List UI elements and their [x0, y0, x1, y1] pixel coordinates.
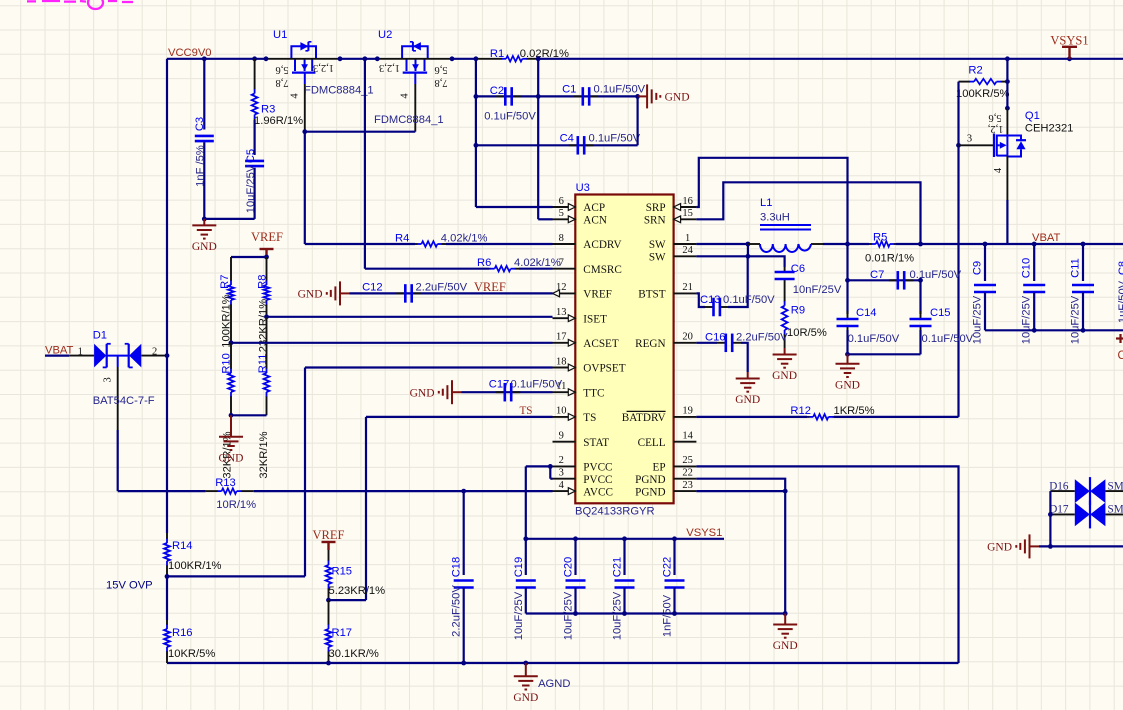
wire main rail right of R1 — [538, 58, 1123, 60]
svg-text:1: 1 — [685, 233, 690, 244]
wire OVPSET vertical — [304, 368, 306, 577]
svg-text:2.2uF/50V: 2.2uF/50V — [451, 585, 463, 637]
svg-text:15V OVP: 15V OVP — [106, 579, 153, 591]
svg-text:2.2uF/50V: 2.2uF/50V — [736, 331, 788, 343]
diode D16 (TVS) — [1050, 490, 1074, 492]
junction VSYS1 rail — [622, 536, 627, 541]
wire EP loop — [696, 466, 958, 663]
junction R1 left node A — [474, 56, 479, 61]
svg-text:10uF/25V: 10uF/25V — [513, 591, 525, 640]
wire Q1 source to VBAT rail — [1006, 200, 1008, 244]
ground GND AGND — [525, 663, 527, 676]
svg-text:3: 3 — [967, 134, 972, 145]
svg-text:PVCC: PVCC — [583, 474, 612, 486]
pin 6 ACP — [553, 206, 576, 208]
pin 21 BTST — [674, 292, 697, 294]
svg-text:VREF: VREF — [251, 230, 283, 244]
svg-text:1: 1 — [78, 346, 83, 357]
capacitor C22 — [673, 539, 675, 575]
svg-text:SW: SW — [649, 239, 666, 251]
svg-text:100KR/5%: 100KR/5% — [956, 88, 1010, 100]
junction C14 bottom — [845, 352, 850, 357]
pin 4 AVCC — [553, 490, 576, 492]
svg-text:GND: GND — [192, 241, 217, 253]
junction cap bottom — [672, 611, 677, 616]
svg-text:D1: D1 — [93, 330, 107, 342]
wire ACP from node A — [476, 206, 553, 208]
svg-text:R3: R3 — [261, 104, 275, 116]
svg-text:VREF: VREF — [474, 280, 506, 294]
svg-text:0.1uF/50V: 0.1uF/50V — [723, 294, 775, 306]
capacitor C7 — [889, 279, 898, 281]
svg-text:C6: C6 — [791, 263, 805, 275]
wire TS row — [366, 416, 553, 418]
wire R2 left vertical down to R12 — [957, 82, 959, 417]
svg-text:6: 6 — [559, 196, 564, 207]
svg-text:8: 8 — [559, 233, 564, 244]
svg-text:BATDRV: BATDRV — [622, 412, 666, 424]
pin 20 REGN — [674, 342, 697, 344]
ground GND right of C1 — [638, 95, 648, 97]
svg-text:R4: R4 — [395, 233, 409, 245]
svg-text:STAT: STAT — [583, 437, 609, 449]
wire TS vertical — [365, 417, 367, 600]
resistor R3 — [254, 59, 256, 90]
wire snubber branch — [748, 256, 785, 263]
resistor R14 (on trunk) — [166, 533, 168, 539]
svg-text:10uF/25V: 10uF/25V — [972, 295, 984, 344]
svg-text:C7: C7 — [870, 269, 884, 281]
svg-text:TTC: TTC — [583, 387, 604, 399]
svg-text:22: 22 — [682, 468, 693, 479]
svg-text:18: 18 — [556, 356, 567, 367]
svg-text:R13: R13 — [215, 477, 236, 489]
svg-text:10R/5%: 10R/5% — [787, 327, 827, 339]
svg-text:10R/1%: 10R/1% — [216, 499, 256, 511]
logo script (magenta, cut off at top) — [27, 0, 133, 9]
svg-text:C2: C2 — [490, 85, 504, 97]
svg-text:R8: R8 — [256, 275, 268, 289]
svg-text:1nF/50V: 1nF/50V — [662, 594, 674, 637]
junction gate tie to R4 — [302, 129, 307, 134]
svg-text:14: 14 — [682, 431, 693, 442]
pin 22 PGND — [674, 478, 697, 480]
svg-text:L1: L1 — [760, 197, 772, 209]
svg-text:C4: C4 — [560, 133, 574, 145]
junction U1 drain pin — [264, 56, 269, 61]
capacitor C13 BTST — [696, 293, 705, 307]
wire node A vertical — [475, 59, 477, 207]
svg-text:30.1KR/%: 30.1KR/% — [329, 648, 379, 660]
pin 19 BATDRV — [674, 416, 697, 418]
capacitor C10 — [1032, 242, 1037, 247]
svg-text:10uF/25V: 10uF/25V — [563, 591, 575, 640]
svg-text:C9: C9 — [972, 261, 984, 275]
ground GND below PGND — [784, 614, 786, 625]
pin 17 ACSET — [553, 342, 576, 344]
pin 7 CMSRC — [553, 268, 576, 270]
svg-text:R14: R14 — [172, 540, 193, 552]
svg-text:4: 4 — [290, 93, 301, 99]
svg-text:OVPSET: OVPSET — [583, 363, 625, 375]
svg-text:24: 24 — [682, 245, 693, 256]
svg-text:C1: C1 — [562, 84, 576, 96]
junction C18 top / AVCC row — [461, 489, 466, 494]
pin 12 VREF — [553, 292, 576, 294]
wire main rail through U1/U2 (pins black) — [266, 58, 340, 60]
capacitor C20 — [574, 539, 576, 575]
wire C4 up to GND node — [636, 96, 638, 145]
wire ACN from node B — [538, 218, 552, 220]
pin 14 CELL — [674, 441, 697, 443]
svg-text:3: 3 — [102, 377, 113, 382]
svg-text:13: 13 — [556, 307, 567, 318]
wire OVPSET row — [305, 366, 553, 368]
svg-text:BQ24133RGYR: BQ24133RGYR — [575, 506, 655, 518]
capacitor C1 — [574, 95, 583, 97]
junction Q1 branch — [1005, 56, 1010, 61]
svg-text:0.01R/1%: 0.01R/1% — [865, 253, 914, 265]
svg-text:1uF/50V: 1uF/50V — [1117, 280, 1123, 323]
wire PVCC down to VSYS1 rail — [525, 466, 527, 538]
resistor R13 — [118, 490, 206, 492]
wire Q1 gate — [959, 144, 994, 146]
wire VCC9V0 trunk vertical — [166, 59, 168, 533]
transistor U2 (FDMC8884_1, mirrored) — [402, 46, 428, 59]
svg-text:10: 10 — [556, 406, 567, 417]
junction U1 source pin — [338, 56, 343, 61]
svg-text:C19: C19 — [513, 557, 525, 578]
svg-text:R7: R7 — [219, 275, 231, 289]
svg-text:19: 19 — [682, 406, 693, 417]
resistor R1 — [477, 58, 502, 60]
svg-text:0.1uF/50V: 0.1uF/50V — [589, 133, 641, 145]
svg-text:GND: GND — [513, 692, 538, 704]
wire VREF row R7/R8 tops — [231, 256, 267, 258]
svg-text:4: 4 — [993, 167, 1004, 173]
svg-text:GND: GND — [835, 379, 860, 391]
svg-text:ACSET: ACSET — [583, 338, 619, 350]
svg-text:3: 3 — [559, 468, 564, 479]
svg-text:25: 25 — [682, 455, 693, 466]
power port VSYS1 — [1068, 47, 1070, 59]
svg-text:0.1uF/50V: 0.1uF/50V — [910, 269, 962, 281]
svg-text:VBAT: VBAT — [1032, 232, 1061, 244]
svg-text:CEH2321: CEH2321 — [1025, 123, 1074, 135]
pin 24 SW — [674, 255, 697, 257]
capacitor C9 — [983, 242, 988, 247]
wire C2 row — [476, 95, 538, 97]
svg-text:0.1uF/50V: 0.1uF/50V — [484, 110, 536, 122]
wire VSYS1 rail — [526, 538, 724, 540]
resistor R17 — [328, 600, 330, 625]
svg-text:10uF/25V: 10uF/25V — [245, 164, 257, 213]
power symbol fragment at edge — [1116, 337, 1123, 339]
wire TS to R15/R17 junction — [329, 599, 366, 601]
svg-text:R15: R15 — [332, 566, 353, 578]
svg-text:2: 2 — [559, 455, 564, 466]
junction R17 bottom on rail — [326, 661, 331, 666]
svg-text:VREF: VREF — [313, 528, 345, 542]
svg-text:C: C — [1118, 350, 1123, 362]
svg-text:FDMC8884_1: FDMC8884_1 — [374, 114, 444, 126]
svg-text:C12: C12 — [362, 281, 383, 293]
pin 23 PGND — [674, 490, 697, 492]
wire C3/C5 bottoms join — [204, 218, 254, 220]
svg-text:1.96R/1%: 1.96R/1% — [254, 115, 303, 127]
svg-text:GND: GND — [735, 394, 760, 406]
svg-text:CMSRC: CMSRC — [583, 264, 622, 276]
svg-text:20: 20 — [682, 332, 693, 343]
svg-text:1,2,3: 1,2,3 — [313, 62, 334, 73]
diode D1 (BAT54C-7-F) — [45, 355, 69, 357]
svg-text:C21: C21 — [612, 557, 624, 578]
ground GND below C3 — [203, 219, 205, 226]
junction C2 left — [474, 94, 479, 99]
wire main top rail left segment — [167, 58, 266, 60]
svg-text:100KR/1%: 100KR/1% — [221, 294, 233, 348]
pin 18 OVPSET — [553, 367, 576, 369]
junction 15V OVP node — [165, 574, 170, 579]
junction C4 left — [474, 143, 479, 148]
svg-text:SW: SW — [649, 252, 666, 264]
junction R5 right / SRN — [918, 242, 923, 247]
resistor R5 — [869, 243, 872, 245]
resistor R4 — [305, 243, 415, 245]
svg-text:R6: R6 — [477, 257, 491, 269]
svg-text:7,8: 7,8 — [434, 77, 447, 88]
svg-text:R9: R9 — [791, 305, 805, 317]
svg-text:10uF/25V: 10uF/25V — [1070, 295, 1082, 344]
junction cap bottom — [573, 611, 578, 616]
junction R2 right — [1005, 79, 1010, 84]
junction R3 top — [252, 56, 257, 61]
svg-text:5: 5 — [559, 208, 564, 219]
wire ISET row — [267, 316, 553, 318]
svg-text:SM: SM — [1108, 480, 1123, 492]
pin 15 SRN — [674, 218, 697, 220]
resistor R6 — [365, 268, 489, 270]
junction Q1 drain pin top — [1005, 106, 1010, 111]
wire C7 row — [848, 279, 921, 281]
wire SW pin24 row — [696, 255, 748, 257]
resistor R8 — [266, 257, 268, 281]
ground GND below R9 — [784, 348, 786, 355]
resistor R12 — [696, 416, 807, 418]
svg-text:CELL: CELL — [638, 437, 666, 449]
junction C18 bottom on rail — [461, 661, 466, 666]
junction R10 bottom — [229, 413, 234, 418]
svg-text:C15: C15 — [930, 307, 951, 319]
svg-text:GND: GND — [665, 92, 690, 104]
svg-text:1nF /5%: 1nF /5% — [195, 145, 207, 187]
junction D1 pin2 to trunk — [165, 353, 170, 358]
svg-text:R17: R17 — [332, 627, 353, 639]
svg-text:5,6: 5,6 — [988, 112, 1001, 123]
wire U1-U2 gate tie — [305, 131, 416, 133]
junction PGND / cap bottoms — [783, 611, 788, 616]
svg-text:R2: R2 — [968, 65, 982, 77]
wire ACSET row — [231, 342, 553, 344]
svg-text:ACN: ACN — [583, 215, 607, 227]
junction VREF — [264, 255, 269, 260]
junction cap bottom — [622, 611, 627, 616]
pin 1 SW — [674, 243, 697, 245]
svg-text:R1: R1 — [490, 48, 504, 60]
svg-text:232KR/1%: 232KR/1% — [258, 299, 270, 353]
svg-text:GND: GND — [298, 289, 323, 301]
diode D17 (TVS) — [1050, 513, 1074, 515]
svg-text:R12: R12 — [790, 405, 811, 417]
junction R15 bottom — [326, 598, 331, 603]
svg-text:5,6: 5,6 — [275, 64, 288, 75]
pin 11 TTC — [553, 391, 576, 393]
capacitor C12 — [396, 292, 405, 294]
svg-text:BTST: BTST — [638, 289, 666, 301]
junction R7/R10 ACSET tap — [229, 340, 234, 345]
svg-text:PVCC: PVCC — [583, 462, 612, 474]
wire TVS ground row — [1039, 545, 1123, 547]
wire PGND pins tie — [696, 479, 785, 491]
svg-text:C11: C11 — [1070, 258, 1082, 278]
svg-text:100KR/1%: 100KR/1% — [168, 560, 222, 572]
wire C12 row — [350, 292, 553, 294]
svg-text:PGND: PGND — [635, 486, 665, 498]
junction SW tie — [746, 242, 751, 247]
svg-text:C10: C10 — [1021, 258, 1033, 279]
svg-text:23: 23 — [682, 480, 693, 491]
svg-text:ACP: ACP — [583, 202, 605, 214]
svg-text:0.1uF/50V: 0.1uF/50V — [594, 84, 646, 96]
wire C1 row — [538, 95, 637, 97]
svg-text:5,6: 5,6 — [434, 64, 447, 75]
wire TTC row — [462, 391, 553, 393]
ground GND left of TVS — [1030, 545, 1040, 547]
svg-text:0.1uF/50V: 0.1uF/50V — [511, 379, 563, 391]
capacitor C6 — [783, 263, 785, 267]
junction C3 top — [202, 56, 207, 61]
resistor R7 — [230, 257, 232, 281]
wire SRN route — [696, 182, 920, 244]
capacitor C19 — [525, 539, 527, 575]
wire Q1 drain from R2 node — [1006, 82, 1008, 109]
svg-text:4: 4 — [400, 93, 411, 99]
svg-text:C14: C14 — [856, 307, 877, 319]
svg-text:SRN: SRN — [644, 215, 666, 227]
resistor R9 — [784, 284, 786, 302]
ground GND left of C12 — [340, 292, 350, 294]
junction R5 left / SRP — [845, 242, 850, 247]
svg-text:GND: GND — [773, 640, 798, 652]
wire L1 to R5 — [823, 243, 869, 245]
wire C14 column top — [846, 244, 848, 314]
svg-text:FDMC8884_1: FDMC8884_1 — [304, 85, 374, 97]
svg-text:D16: D16 — [1049, 480, 1069, 492]
transistor U1 (FDMC8884_1) — [291, 46, 316, 59]
svg-text:VSYS1: VSYS1 — [686, 527, 722, 539]
svg-text:5.23KR/1%: 5.23KR/1% — [329, 585, 386, 597]
svg-text:2: 2 — [152, 346, 157, 357]
pin 25 EP — [674, 465, 697, 467]
svg-text:BAT54C-7-F: BAT54C-7-F — [93, 395, 155, 407]
svg-text:GND: GND — [410, 387, 435, 399]
resistor R11 — [266, 317, 268, 369]
svg-text:0.1uF/50V: 0.1uF/50V — [922, 333, 974, 345]
svg-text:GND: GND — [219, 452, 244, 464]
svg-text:TS: TS — [583, 412, 596, 424]
svg-text:9: 9 — [559, 431, 564, 442]
wire bottom AGND rail — [167, 662, 959, 664]
svg-text:R16: R16 — [172, 627, 193, 639]
svg-text:GND: GND — [772, 370, 797, 382]
junction VSYS1 rail — [672, 536, 677, 541]
svg-text:C5: C5 — [245, 149, 257, 163]
svg-text:0.1uF/50V: 0.1uF/50V — [848, 333, 900, 345]
pin 3 PVCC — [553, 478, 576, 480]
svg-text:4.02k/1%: 4.02k/1% — [514, 257, 561, 269]
svg-text:C13: C13 — [700, 294, 721, 306]
ground GND below divider — [230, 415, 232, 437]
junction C1 right / GND node — [635, 94, 640, 99]
svg-text:ISET: ISET — [583, 313, 607, 325]
svg-text:TS: TS — [519, 405, 532, 417]
svg-text:SM: SM — [1108, 504, 1123, 516]
capacitor C3 — [203, 59, 205, 130]
svg-text:3.3uH: 3.3uH — [760, 212, 790, 224]
pin 8 ACDRV — [553, 243, 576, 245]
svg-text:R5: R5 — [873, 232, 887, 244]
svg-text:REGN: REGN — [635, 338, 665, 350]
pin 10 TS — [553, 416, 576, 418]
svg-text:10KR/5%: 10KR/5% — [168, 648, 215, 660]
op-amp U3 body (BQ24133RGYR) — [575, 195, 673, 504]
svg-text:10nF/25V: 10nF/25V — [793, 284, 842, 296]
svg-text:1KR/5%: 1KR/5% — [834, 405, 875, 417]
svg-text:16: 16 — [682, 196, 693, 207]
svg-text:R11: R11 — [257, 354, 269, 374]
svg-text:GND: GND — [987, 542, 1012, 554]
svg-text:C17: C17 — [489, 379, 510, 391]
svg-text:VREF: VREF — [583, 289, 612, 301]
svg-text:15: 15 — [682, 208, 693, 219]
wire D1 pin3 down to R13 row — [117, 430, 119, 491]
resistor R16 (on trunk) — [166, 576, 168, 620]
capacitor C21 — [623, 539, 625, 575]
wire gate node down to R4 row — [304, 132, 306, 244]
wire PGND down — [784, 491, 786, 613]
ground GND below C16 — [747, 372, 749, 379]
junction VSYS1 port — [1067, 56, 1072, 61]
junction C7 left — [845, 278, 850, 283]
svg-text:Q1: Q1 — [1025, 110, 1040, 122]
svg-text:C18: C18 — [451, 557, 463, 578]
junction VSYS1 rail — [573, 536, 578, 541]
svg-text:4.02k/1%: 4.02k/1% — [441, 233, 488, 245]
capacitor C17 — [496, 391, 505, 393]
junction CMSRC tap — [363, 56, 368, 61]
junction AGND on rail — [523, 661, 528, 666]
pin 16 SRP — [674, 206, 697, 208]
svg-text:17: 17 — [556, 332, 567, 343]
junction C3 bottom — [202, 217, 207, 222]
wire R10/R11 bottoms — [231, 414, 267, 416]
svg-text:SRP: SRP — [646, 202, 666, 214]
resistor R15 — [328, 550, 330, 561]
svg-text:U1: U1 — [273, 29, 287, 41]
capacitor C2 — [496, 95, 505, 97]
wire C9-C11 bottoms — [985, 329, 1123, 331]
svg-text:VSYS1: VSYS1 — [1050, 33, 1088, 47]
